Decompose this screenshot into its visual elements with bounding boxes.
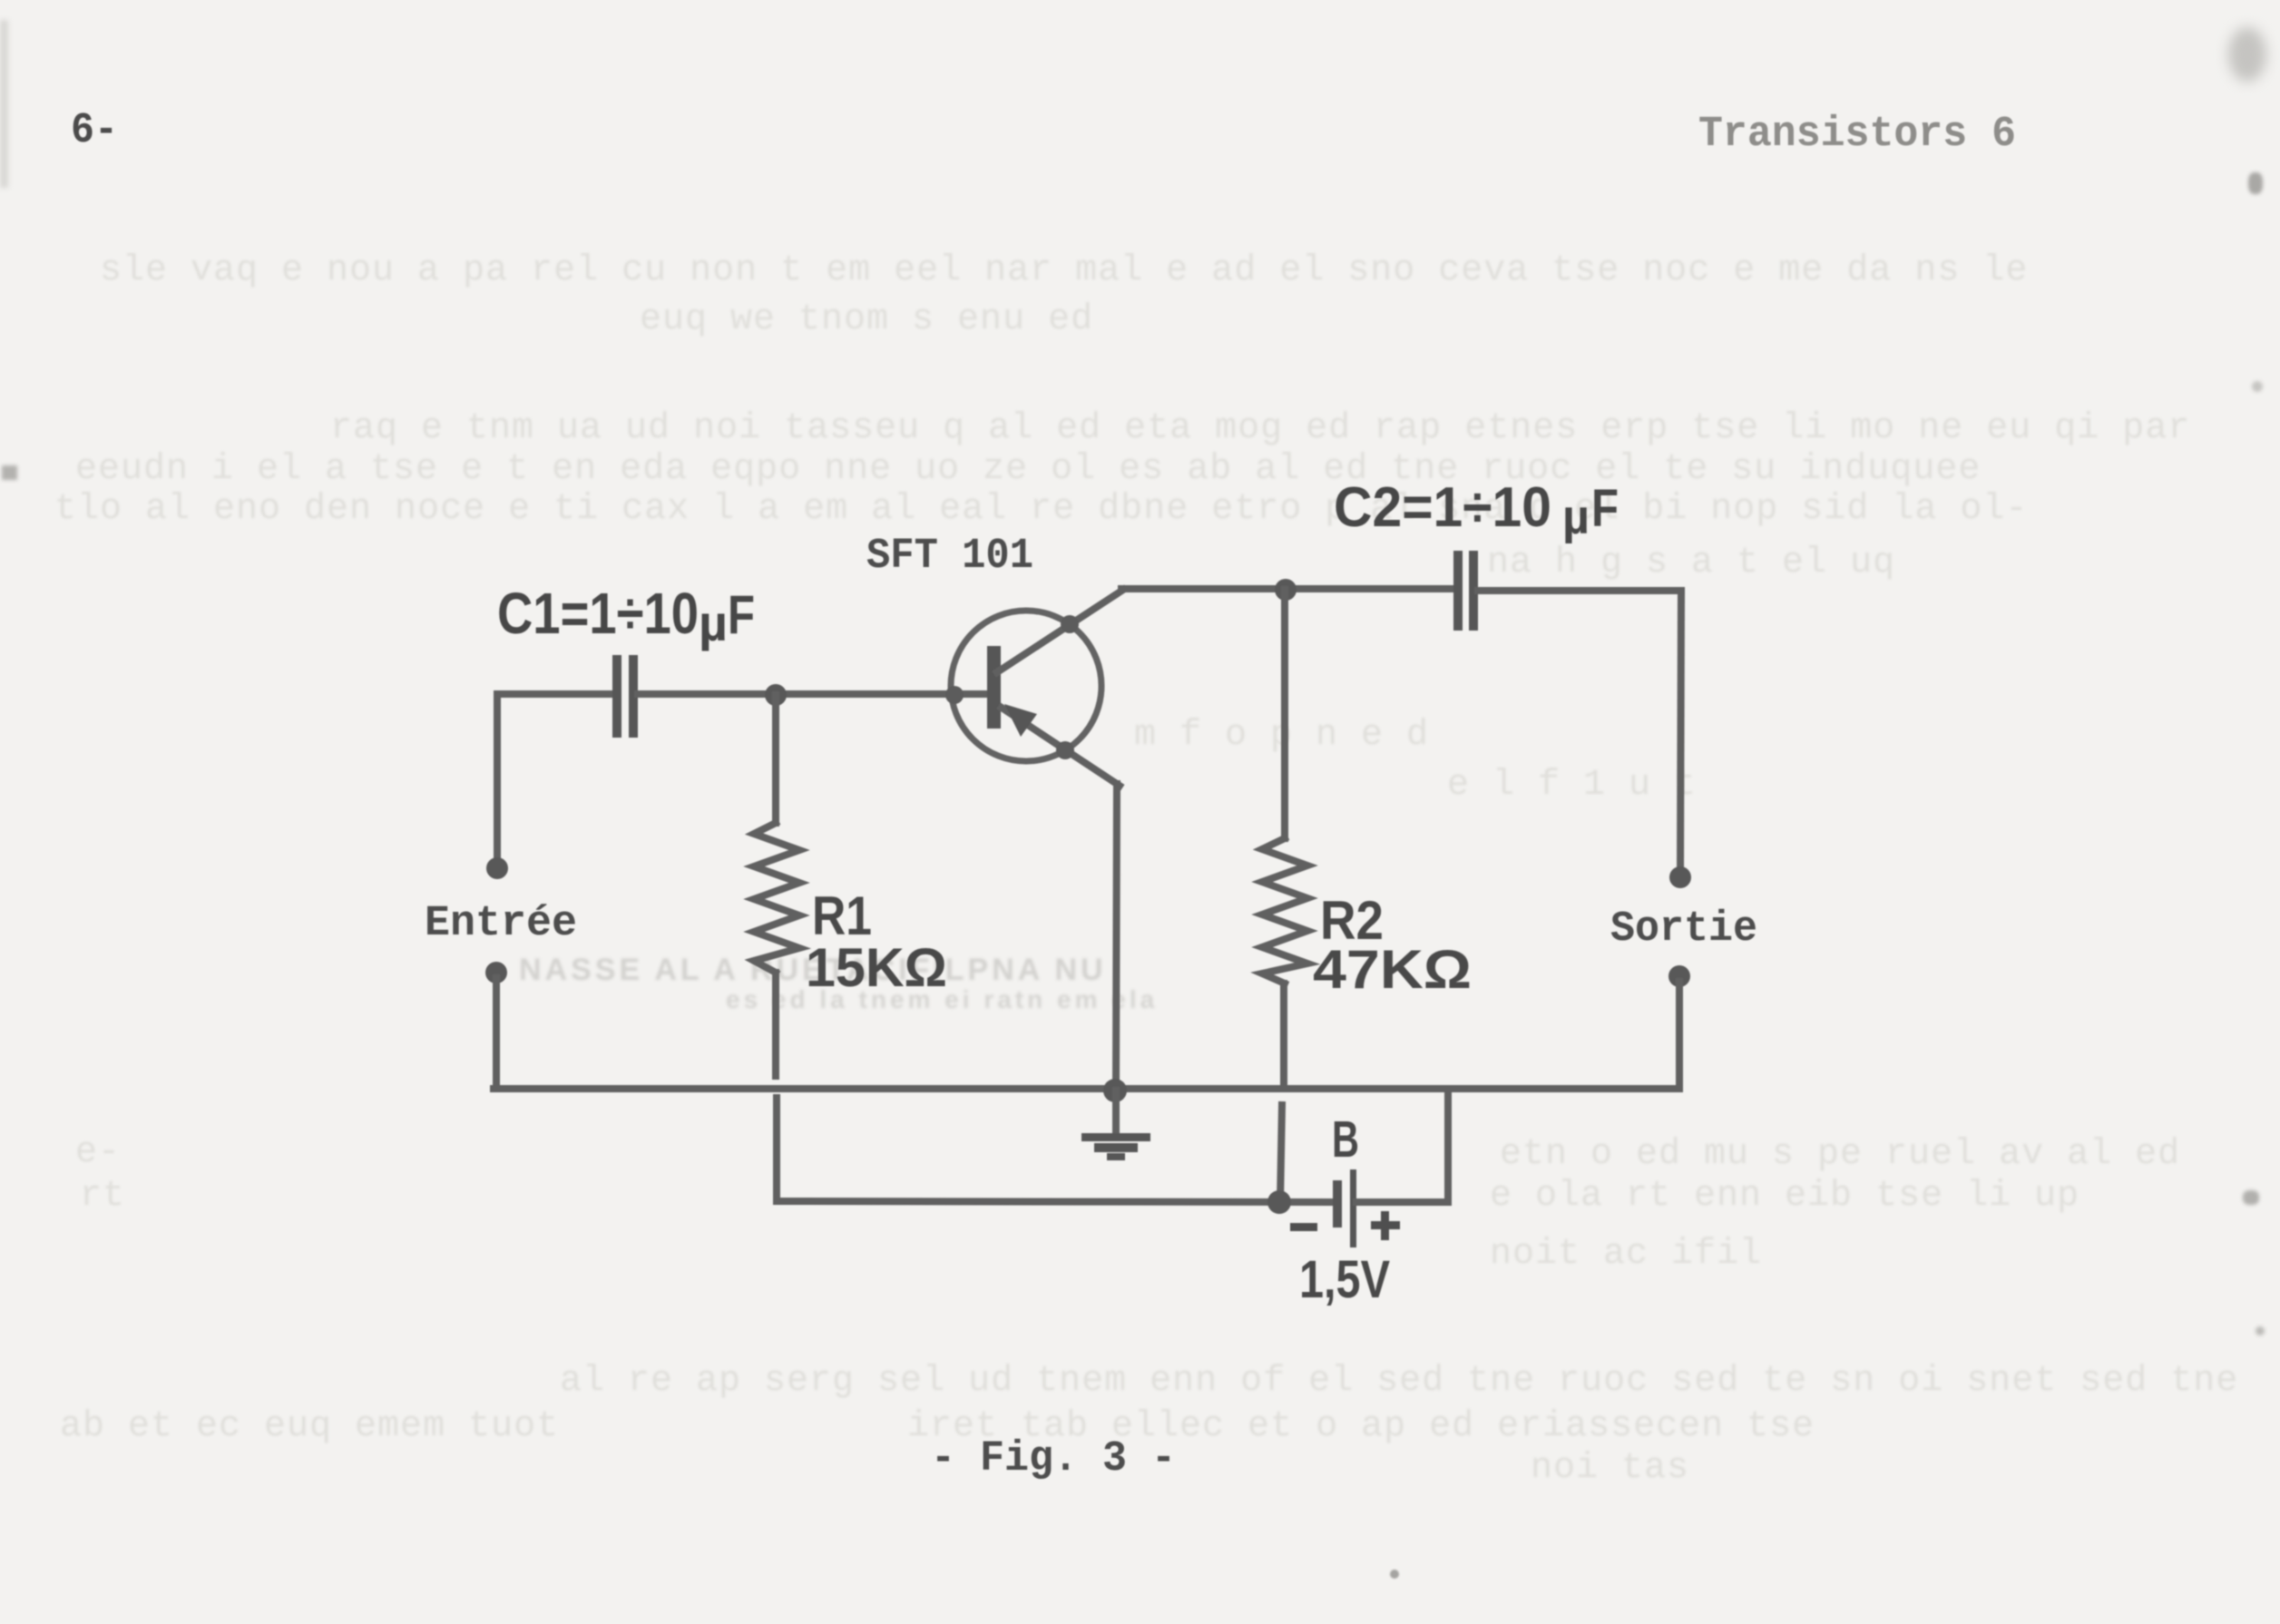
svg-text:15KΩ: 15KΩ <box>806 937 947 998</box>
transistor Q1 SFT 101 <box>945 590 1123 786</box>
node: emitter/rail junction <box>1103 1079 1127 1102</box>
wire: Sortie top vertical <box>1680 591 1681 871</box>
node: R1 top junction <box>765 684 787 706</box>
wire: battery lower horizontal left <box>777 1201 1330 1202</box>
svg-text:F: F <box>1591 479 1619 538</box>
battery B <box>1333 1169 1356 1247</box>
battery plus sign <box>1371 1211 1400 1240</box>
svg-text:Sortie: Sortie <box>1610 905 1757 954</box>
battery voltage label 1,5V <box>1299 1250 1390 1309</box>
capacitor C2 <box>1453 551 1478 631</box>
capacitor C1 <box>612 655 638 738</box>
wire: Sortie bottom vertical <box>1676 982 1683 1089</box>
wire: battery to right vertical <box>1356 1198 1448 1206</box>
caption Fig. 3 <box>931 1435 1176 1483</box>
wire: stub to ground <box>1112 1091 1120 1134</box>
svg-text:µ: µ <box>1562 490 1590 544</box>
C1 value label <box>497 581 755 651</box>
header title "Transistors 6" <box>1698 111 2016 159</box>
battery minus sign <box>1290 1223 1317 1231</box>
svg-text:6-: 6- <box>71 107 118 155</box>
ghost bleed-through text lines <box>100 250 2028 291</box>
node: Sortie top terminal <box>1669 866 1691 888</box>
label Sortie <box>1610 905 1757 954</box>
transistor type label SFT 101 <box>866 533 1033 581</box>
svg-text:Entrée: Entrée <box>425 900 577 948</box>
svg-text:47KΩ: 47KΩ <box>1313 939 1472 1000</box>
node: Entree top terminal <box>486 857 508 879</box>
resistor R2 <box>1262 590 1307 1202</box>
R1 reference label <box>812 885 872 946</box>
ground <box>1081 1133 1150 1160</box>
svg-text:µ: µ <box>699 594 728 651</box>
wire: right vertical battery to rail <box>1444 1089 1452 1202</box>
R2 reference label <box>1320 890 1384 951</box>
wire: Entree top vertical <box>494 694 501 862</box>
svg-text:C2=1÷10: C2=1÷10 <box>1334 476 1551 539</box>
svg-text:C1=1÷10: C1=1÷10 <box>497 581 699 646</box>
resistor R1 <box>754 695 799 1076</box>
R2 value label <box>1313 939 1472 1000</box>
wire: input top horizontal (base wire left of C1) <box>498 690 612 698</box>
svg-text:1,5V: 1,5V <box>1299 1250 1390 1309</box>
R1 value label <box>806 937 947 998</box>
svg-text:B: B <box>1332 1110 1359 1169</box>
wire: C2 to output corner <box>1478 587 1681 594</box>
svg-text:Transistors 6: Transistors 6 <box>1698 111 2016 159</box>
header page number "6-" <box>71 107 118 155</box>
battery label B <box>1332 1110 1359 1169</box>
C2 value label <box>1334 476 1619 544</box>
wire: bottom common rail <box>494 1085 1679 1092</box>
page scan marks <box>2228 27 2266 82</box>
label Entree <box>425 900 577 948</box>
svg-text:F: F <box>728 584 755 645</box>
wire: R1 to battery lower wire <box>773 1098 780 1201</box>
wire: Entree bottom vertical <box>493 978 500 1089</box>
wire: base wire from C1 to transistor <box>638 690 987 698</box>
svg-text:- Fig. 3 -: - Fig. 3 - <box>931 1435 1176 1483</box>
wire: collector horizontal to C2 <box>1121 585 1453 592</box>
wire: emitter vertical to rail <box>1116 784 1117 1089</box>
node: battery junction <box>1267 1190 1291 1214</box>
node: Sortie bottom terminal <box>1668 965 1690 987</box>
svg-text:SFT 101: SFT 101 <box>866 533 1033 581</box>
node: collector / R2 junction <box>1275 579 1297 601</box>
node: Entree bottom terminal <box>485 962 507 983</box>
